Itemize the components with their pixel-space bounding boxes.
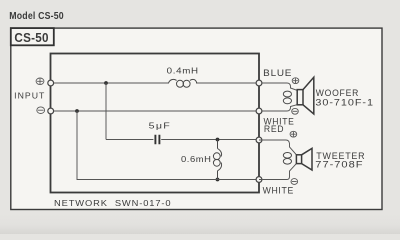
tweeter plus symbol	[290, 131, 297, 137]
terminal BLUE	[256, 80, 262, 86]
CS-50 title box	[11, 28, 54, 45]
capacitor C1 5uF	[155, 135, 159, 144]
tweeter lead coil loops	[283, 153, 291, 165]
outer enclosure box	[11, 28, 382, 209]
svg-text:WOOFER: WOOFER	[316, 88, 359, 98]
wire: woofer plus lead	[259, 83, 297, 90]
svg-text:BLUE: BLUE	[263, 68, 292, 78]
wire: capacitor line	[106, 139, 259, 141]
terminal WHITE (tweeter)	[256, 177, 262, 183]
inductor L1 0.4mH	[169, 79, 197, 87]
network box SWN-017-0	[51, 54, 260, 193]
svg-text:WHITE: WHITE	[263, 185, 294, 195]
svg-text:0.4mH: 0.4mH	[167, 65, 199, 75]
input plus symbol	[36, 78, 44, 85]
junction node: L2 top	[216, 138, 220, 142]
input minus symbol	[37, 107, 45, 114]
svg-text:INPUT: INPUT	[14, 90, 45, 100]
junction node: L2 bottom	[216, 178, 220, 182]
input plus terminal	[48, 80, 54, 86]
svg-text:77-708F: 77-708F	[315, 160, 363, 170]
wire: bottom branch	[77, 111, 259, 180]
wire: woofer minus lead	[259, 105, 297, 111]
wire: capacitor branch vertical	[105, 83, 107, 140]
wire: minus rail	[51, 110, 260, 112]
wire: plus rail	[51, 82, 260, 84]
junction node: capacitor branch on plus rail	[104, 81, 108, 85]
svg-text:Model CS-50: Model CS-50	[9, 10, 64, 22]
woofer minus symbol	[292, 108, 299, 114]
svg-text:RED: RED	[264, 124, 284, 134]
terminal RED	[256, 137, 262, 143]
svg-text:0.6mH: 0.6mH	[181, 154, 212, 164]
tweeter SP2	[296, 148, 312, 170]
junction node: bottom branch on minus rail	[75, 109, 79, 113]
svg-text:NETWORK SWN-017-0: NETWORK SWN-017-0	[54, 198, 172, 208]
woofer lead coil loops	[283, 91, 291, 104]
tweeter minus symbol	[291, 179, 298, 185]
woofer plus symbol	[292, 78, 299, 84]
svg-text:CS-50: CS-50	[14, 30, 48, 45]
inductor L2 0.6mH (shunt)	[213, 140, 221, 180]
input minus terminal	[48, 108, 54, 114]
wire: tweeter plus lead	[259, 140, 296, 155]
terminal WHITE (woofer)	[256, 108, 262, 114]
svg-text:5μF: 5μF	[149, 121, 171, 131]
svg-text:30-710F-1: 30-710F-1	[315, 98, 374, 108]
wire: tweeter minus lead	[259, 164, 296, 180]
woofer SP1	[297, 77, 314, 114]
